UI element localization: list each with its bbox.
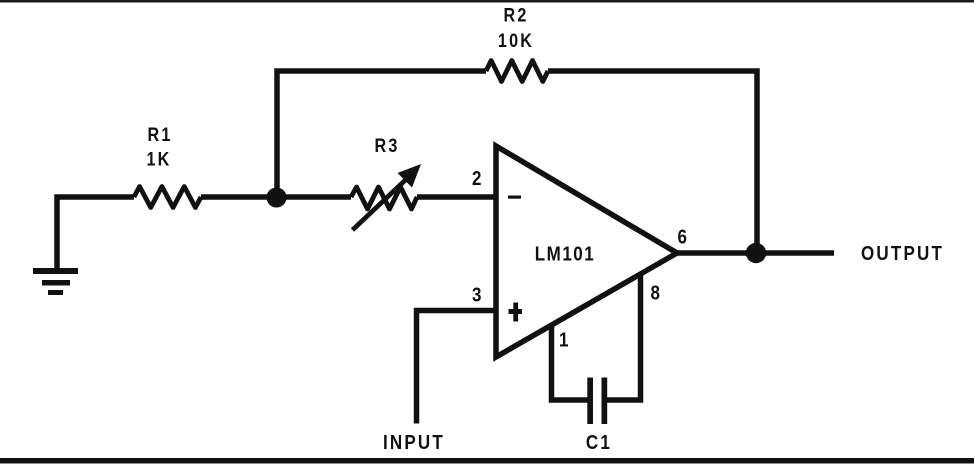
svg-text:R1: R1: [147, 124, 172, 146]
svg-text:R2: R2: [503, 4, 528, 26]
svg-text:C1: C1: [586, 431, 612, 454]
svg-text:R3: R3: [374, 135, 399, 157]
svg-text:10K: 10K: [498, 30, 534, 52]
svg-text:LM101: LM101: [535, 242, 596, 265]
svg-text:8: 8: [651, 281, 662, 304]
svg-text:2: 2: [472, 167, 483, 190]
svg-text:OUTPUT: OUTPUT: [861, 242, 944, 265]
svg-text:1: 1: [559, 328, 570, 351]
svg-text:6: 6: [678, 225, 689, 248]
svg-text:INPUT: INPUT: [383, 431, 445, 454]
svg-text:1K: 1K: [146, 148, 171, 170]
svg-text:3: 3: [472, 283, 483, 306]
